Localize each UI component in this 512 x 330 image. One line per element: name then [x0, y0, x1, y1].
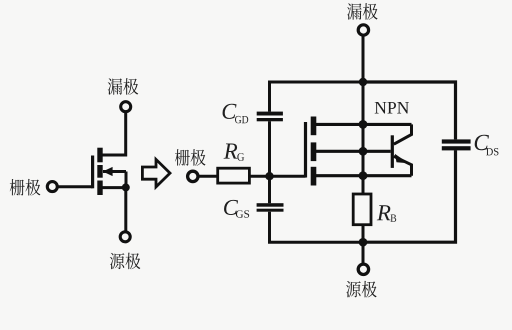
label 漏极 (drain, top): [347, 3, 378, 20]
capacitor CGD: [257, 112, 283, 122]
transistor Q1 emitter arrow: [395, 154, 409, 163]
junction: source node on bottom rail: [359, 238, 368, 247]
label CGS: [224, 200, 249, 218]
source terminal (bottom): [358, 264, 368, 274]
wire: left rail: [270, 82, 364, 242]
MOSFET channel segments (right circuit): [311, 117, 317, 186]
junction: middle stub / center rail: [359, 147, 368, 156]
MOSFET channel segments (left symbol): [97, 148, 102, 195]
gate terminal (right circuit): [188, 171, 198, 181]
wire: source lead (left symbol): [124, 187, 127, 231]
gate terminal (left symbol): [47, 182, 57, 192]
label RG: [224, 144, 245, 161]
label 源极 (source, left symbol): [110, 253, 141, 270]
junction: gate node on left rail: [265, 172, 273, 180]
junction: top stub / center rail: [359, 120, 368, 129]
source terminal (left symbol): [120, 232, 130, 242]
wire: body stub to NPN base: [316, 150, 391, 153]
wire: source stub to NPN emitter corner: [316, 174, 412, 177]
transistor Q1 collector: [394, 124, 412, 144]
wire: drain lead down to top rail: [362, 36, 365, 82]
drain terminal (left symbol): [121, 102, 131, 112]
label 源极 (source, bottom): [346, 281, 377, 298]
label NPN: [375, 102, 409, 114]
wire: center rail: [362, 82, 365, 194]
junction: source node (left symbol): [122, 183, 130, 191]
wire: source stub (left symbol): [101, 186, 126, 189]
junction: drain node on top rail: [359, 78, 367, 86]
transistor Q1 NPN base bar: [391, 135, 394, 168]
label 栅极 (gate, right circuit): [175, 149, 206, 166]
MOSFET gate bar (right circuit): [304, 122, 307, 178]
label RB: [377, 205, 396, 221]
wire: drain stub to NPN collector corner: [316, 123, 412, 126]
MOSFET gate electrode bar (left symbol): [91, 156, 94, 189]
wire: RG to gate bar: [250, 175, 306, 178]
wire: gate lead (left symbol): [58, 185, 93, 188]
label 栅极 (gate, left symbol): [10, 179, 41, 196]
label CDS: [475, 135, 499, 156]
wire: bottom rail right part: [363, 150, 456, 242]
label 漏极 (drain, left symbol): [108, 78, 139, 95]
drain terminal (top): [358, 25, 368, 35]
capacitor CDS: [442, 139, 471, 150]
wire: body stub with arrow (left symbol): [103, 170, 126, 173]
transistor Q1 emitter: [394, 156, 412, 175]
wire: gate to RG: [199, 175, 219, 178]
wire: top rail right part: [363, 82, 456, 139]
wire: source lead down: [362, 242, 365, 263]
equivalence arrow: [142, 159, 170, 187]
resistor RG: [218, 168, 250, 183]
label CGD: [223, 104, 249, 124]
capacitor CGS: [257, 203, 284, 212]
resistor RB: [353, 194, 371, 225]
wire: drain lead (left symbol): [101, 113, 126, 156]
wire: RB to bottom rail: [362, 225, 365, 243]
junction: bottom stub / center rail: [359, 171, 368, 180]
